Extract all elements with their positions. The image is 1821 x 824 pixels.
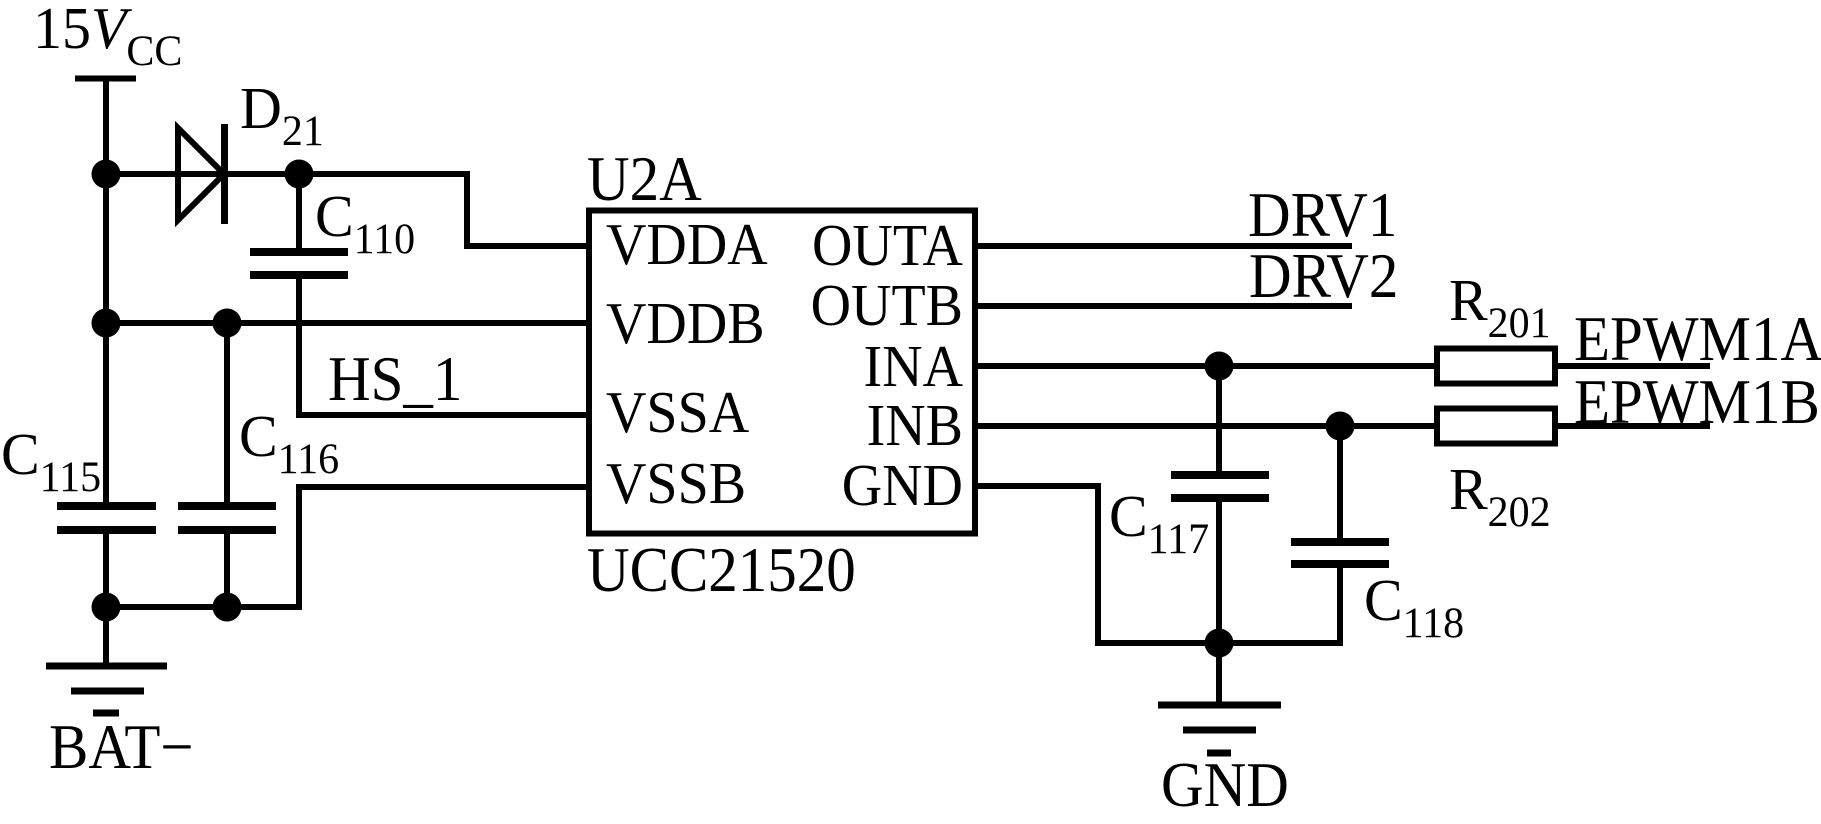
svg-text:VSSB: VSSB [606, 452, 746, 517]
wire HS_1 to VSSA pin [299, 412, 589, 418]
capacitor C117 [1171, 366, 1269, 643]
capacitor C116 [178, 506, 276, 530]
wire C116 bottom lead [224, 530, 230, 607]
svg-text:EPWM1A: EPWM1A [1574, 304, 1821, 375]
capacitor C115 [57, 506, 156, 530]
wire VDDB rail [106, 320, 589, 326]
wire GND stem [1216, 643, 1222, 705]
wire C116 top lead [224, 323, 230, 506]
diode D21 [178, 124, 225, 224]
junction diode cathode / C110 [285, 160, 314, 189]
svg-text:HS_1: HS_1 [328, 344, 462, 415]
junction Vcc/diode anode [92, 160, 121, 189]
wire C115 bottom lead [103, 530, 109, 666]
wire Vcc through diode D21 to corner and VDDA pin [106, 174, 589, 246]
wire GND pin to ground rail [975, 486, 1340, 643]
wire R201 to EPWM1A [1558, 363, 1710, 369]
wire OUTA to DRV1 [975, 243, 1352, 249]
junction INB / C118 [1326, 412, 1355, 441]
capacitor C118 [1291, 426, 1389, 646]
wire INB to R202 [975, 423, 1434, 429]
ground symbol BAT- [46, 666, 167, 713]
capacitor C110 [250, 174, 348, 418]
junction ground rail / C117 [1205, 629, 1234, 658]
svg-text:OUTB: OUTB [811, 274, 963, 339]
op-amp U2A (gate driver IC UCC21520) box [589, 211, 975, 534]
svg-text:GND: GND [842, 454, 963, 519]
wire INA to R201 [975, 363, 1434, 369]
svg-text:UCC21520: UCC21520 [587, 535, 856, 606]
wire Vcc vertical [103, 78, 109, 506]
svg-text:DRV2: DRV2 [1249, 241, 1398, 312]
wire OUTB to DRV2 [975, 303, 1352, 309]
svg-text:OUTA: OUTA [812, 214, 964, 279]
junction C115 bottom [92, 593, 121, 622]
junction INA / C117 [1205, 352, 1234, 381]
svg-text:DRV1: DRV1 [1248, 180, 1397, 251]
power symbol 15Vcc bar [75, 76, 136, 82]
svg-text:VSSA: VSSA [606, 381, 750, 446]
wire R202 to EPWM1B [1558, 423, 1710, 429]
ground symbol GND [1158, 705, 1281, 753]
resistor R202 [1437, 409, 1555, 444]
resistor R201 [1437, 349, 1555, 384]
wire VSSB pin to bottom rail [106, 487, 589, 607]
svg-text:EPWM1B: EPWM1B [1574, 367, 1820, 438]
junction C116 top [213, 309, 242, 338]
svg-text:U2A: U2A [587, 144, 702, 215]
svg-text:INA: INA [863, 335, 963, 400]
svg-text:INB: INB [867, 394, 963, 459]
svg-text:BAT−: BAT− [49, 712, 194, 783]
junction Vcc/VDDB [92, 309, 121, 338]
svg-text:VDDA: VDDA [606, 213, 768, 278]
svg-text:GND: GND [1161, 750, 1289, 821]
junction C116 bottom [213, 593, 242, 622]
svg-text:VDDB: VDDB [606, 292, 765, 357]
